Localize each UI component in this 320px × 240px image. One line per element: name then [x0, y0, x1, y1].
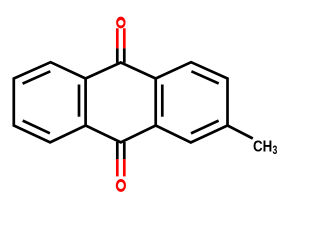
bond fusion edge ring B/C: [154, 79, 157, 126]
bond double inner: ring C top-right edge: [191, 71, 218, 83]
carbonyl C10=O bottom double bond, black halves: [116, 142, 119, 159]
atom O bottom oxygen label: [116, 179, 126, 192]
bond double inner: ring C fusion edge: [161, 85, 164, 117]
bond C2-CH3 methyl bond: [228, 126, 253, 139]
carbonyl C9=O top double bond, red halves: [116, 28, 119, 48]
bond C9a-C1a fusion edge ring A/B: [84, 79, 87, 126]
bond double inner: ring A top-left edge: [23, 71, 51, 83]
bond double inner: ring A bottom-left edge: [23, 121, 50, 134]
svg-text:3: 3: [273, 143, 278, 157]
svg-text:CH: CH: [253, 138, 272, 155]
wire: ring B top bonds to C9: [86, 63, 156, 79]
wire: ring C (right ring) outline: [156, 62, 228, 142]
carbonyl C10=O bottom double bond, red halves: [116, 159, 119, 176]
wire: ring A (left benzo ring) outline: [14, 62, 86, 142]
bond double inner: ring C bottom-right edge C2=C3: [191, 121, 219, 134]
wire: ring B bottom bonds to C10: [86, 126, 156, 143]
bond double inner: ring A fusion edge: [78, 85, 81, 117]
atom O top oxygen label: [116, 17, 126, 29]
carbonyl C9=O top double bond, black halves: [116, 48, 119, 62]
